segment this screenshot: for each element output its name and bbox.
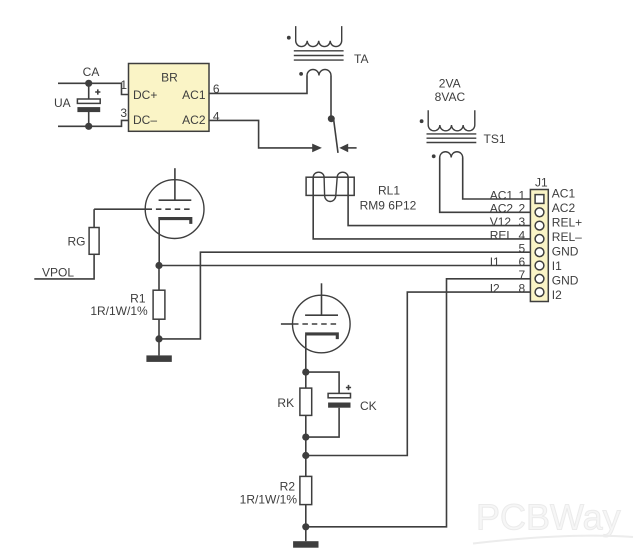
node V2 cathode junction (302, 369, 309, 376)
svg-text:V12: V12 (490, 215, 512, 229)
wire R1 bottom stub (158, 319, 160, 355)
wire CK bottom to RK bottom node (306, 408, 339, 437)
TA core (294, 51, 344, 60)
wire V1 cathode node to J1 pin6 I1 (159, 265, 535, 267)
bridge rectifier BR (129, 64, 210, 132)
svg-text:UA: UA (54, 96, 71, 110)
wire AC2 to switch arrow (209, 120, 313, 147)
svg-text:I1: I1 (490, 255, 500, 269)
svg-text:AC2: AC2 (490, 202, 514, 216)
arrow head right contact (339, 144, 348, 153)
TA primary phase dot (287, 36, 291, 40)
wire J1 pin5 GND to R1 bottom (159, 252, 535, 339)
svg-text:I2: I2 (490, 282, 500, 296)
transformer TA primary (296, 26, 342, 46)
svg-text:8VAC: 8VAC (435, 90, 466, 104)
svg-text:TA: TA (354, 52, 368, 66)
wire RL1 left lead to J1 pin4 REL (313, 177, 535, 239)
arrow right switch contact (348, 147, 357, 149)
capacitor CK (328, 385, 351, 408)
relay RL1 body (306, 177, 354, 195)
triode V1 envelope (145, 180, 204, 239)
wire TS1 secondary right to J1 pin1 (463, 158, 535, 200)
J1 pin5 pad (535, 248, 544, 257)
svg-text:3: 3 (120, 106, 127, 120)
relay RL1 winding (313, 172, 348, 201)
transformer TS1 secondary (440, 152, 463, 158)
svg-text:PCBWay: PCBWay (476, 497, 621, 538)
svg-text:CA: CA (83, 65, 100, 79)
wire V1 cathode down (158, 220, 160, 266)
node RK bottom junction (302, 434, 309, 441)
node R1 ground junction (155, 335, 162, 342)
svg-text:1R/1W/1%: 1R/1W/1% (240, 493, 298, 507)
resistor R1 (153, 290, 165, 319)
node CA bottom junction (85, 123, 92, 130)
svg-text:8: 8 (519, 282, 526, 296)
svg-text:AC2: AC2 (552, 201, 576, 215)
svg-text:4: 4 (213, 109, 220, 123)
V2 anode plate (305, 314, 338, 316)
transformer TS1 primary (428, 110, 475, 131)
wire UA top to DC+ (58, 83, 129, 94)
svg-text:1: 1 (519, 188, 526, 202)
wire R2 top stub (305, 456, 307, 477)
node V1 cathode junction (155, 262, 162, 269)
V1 anode lead (174, 168, 176, 200)
wire RL1 right lead to J1 pin3 V12 (348, 177, 535, 225)
svg-text:RM9 6P12: RM9 6P12 (360, 199, 417, 213)
svg-text:I1: I1 (552, 259, 562, 273)
resistor R2 (300, 476, 312, 504)
TS1 primary phase dot (420, 119, 424, 123)
node CA top junction (85, 80, 92, 87)
V2 cathode (305, 334, 337, 339)
switch blade (334, 120, 338, 153)
svg-text:3: 3 (519, 215, 526, 229)
wire TS1 secondary left to J1 pin2 (440, 158, 535, 213)
J1 pin8 pad (535, 288, 544, 297)
J1 pin7 pad (535, 274, 544, 283)
svg-text:REL+: REL+ (552, 216, 582, 230)
svg-text:4: 4 (519, 228, 526, 242)
svg-text:R2: R2 (280, 479, 296, 493)
TS1 core (427, 134, 477, 143)
wire RG to V1 grid (94, 208, 146, 210)
svg-text:VPOL: VPOL (42, 266, 74, 280)
wire R1 top stub (158, 266, 160, 291)
resistor RG (89, 228, 99, 255)
node I2 junction (302, 452, 309, 459)
svg-text:REL: REL (490, 228, 514, 242)
watermark PCBWay (473, 497, 633, 544)
svg-text:AC2: AC2 (182, 113, 206, 127)
svg-text:6: 6 (519, 255, 526, 269)
wire V2 cathode node to CK top (306, 372, 339, 393)
ground below R1 (146, 355, 171, 362)
V1 anode plate (159, 199, 192, 201)
resistor RK (300, 388, 312, 415)
svg-text:2: 2 (519, 202, 526, 216)
wire V2 cathode down (305, 335, 307, 372)
svg-text:I2: I2 (552, 288, 562, 302)
svg-text:RK: RK (277, 396, 294, 410)
wire RK top stub (305, 372, 307, 388)
wire UA bottom to DC- (58, 120, 129, 126)
TS1 secondary phase dot (432, 154, 436, 158)
TA secondary phase dot (299, 72, 303, 76)
wire AC1 to TA secondary (209, 76, 307, 94)
wire TA secondary right to switch (330, 76, 332, 119)
svg-text:7: 7 (519, 268, 526, 282)
node R2 ground junction (302, 523, 309, 530)
V1 cathode (158, 219, 191, 224)
wire RG top stub (93, 209, 95, 227)
wire RG bottom to VPOL (34, 254, 94, 279)
svg-text:BR: BR (161, 71, 178, 85)
svg-text:RG: RG (68, 234, 86, 248)
svg-text:1R/1W/1%: 1R/1W/1% (90, 304, 148, 318)
svg-text:5: 5 (519, 242, 526, 256)
svg-text:DC–: DC– (133, 113, 157, 127)
V1 grid dashed (147, 208, 193, 210)
wire CA top stub (88, 83, 90, 99)
capacitor CA (77, 89, 100, 112)
svg-text:2VA: 2VA (439, 77, 461, 91)
J1 pin2 pad (535, 208, 544, 217)
wire R2 bottom stub (305, 505, 307, 542)
svg-text:J1: J1 (535, 175, 548, 189)
wire CA bottom stub (88, 112, 90, 127)
J1 pin1 square pad (535, 195, 544, 204)
J1 pin4 pad (535, 235, 544, 244)
svg-text:1: 1 (120, 78, 127, 92)
svg-text:GND: GND (552, 245, 579, 259)
svg-text:DC+: DC+ (133, 88, 157, 102)
svg-text:GND: GND (552, 274, 579, 288)
arrow left switch contact (312, 144, 322, 153)
V2 grid stub (281, 323, 293, 325)
svg-text:TS1: TS1 (484, 132, 506, 146)
J1 pin3 pad (535, 221, 544, 230)
ground below R2 (293, 541, 318, 548)
connector J1 body (530, 190, 548, 302)
V2 grid dashed (293, 323, 339, 325)
wire I2 node to J1 pin8 (306, 292, 535, 455)
svg-text:CK: CK (360, 399, 377, 413)
wire RK bottom stub (305, 415, 307, 455)
wire R2 ground node to J1 pin7 GND (306, 279, 535, 527)
node switch junction (328, 115, 335, 122)
svg-text:RL1: RL1 (378, 183, 400, 197)
svg-text:AC1: AC1 (182, 88, 206, 102)
transformer TA secondary (307, 70, 331, 76)
svg-text:AC1: AC1 (490, 188, 514, 202)
J1 pin6 pad (535, 261, 544, 270)
svg-text:AC1: AC1 (552, 187, 576, 201)
V2 anode lead (321, 283, 323, 315)
triode V2 envelope (293, 295, 351, 353)
svg-text:REL–: REL– (552, 230, 582, 244)
